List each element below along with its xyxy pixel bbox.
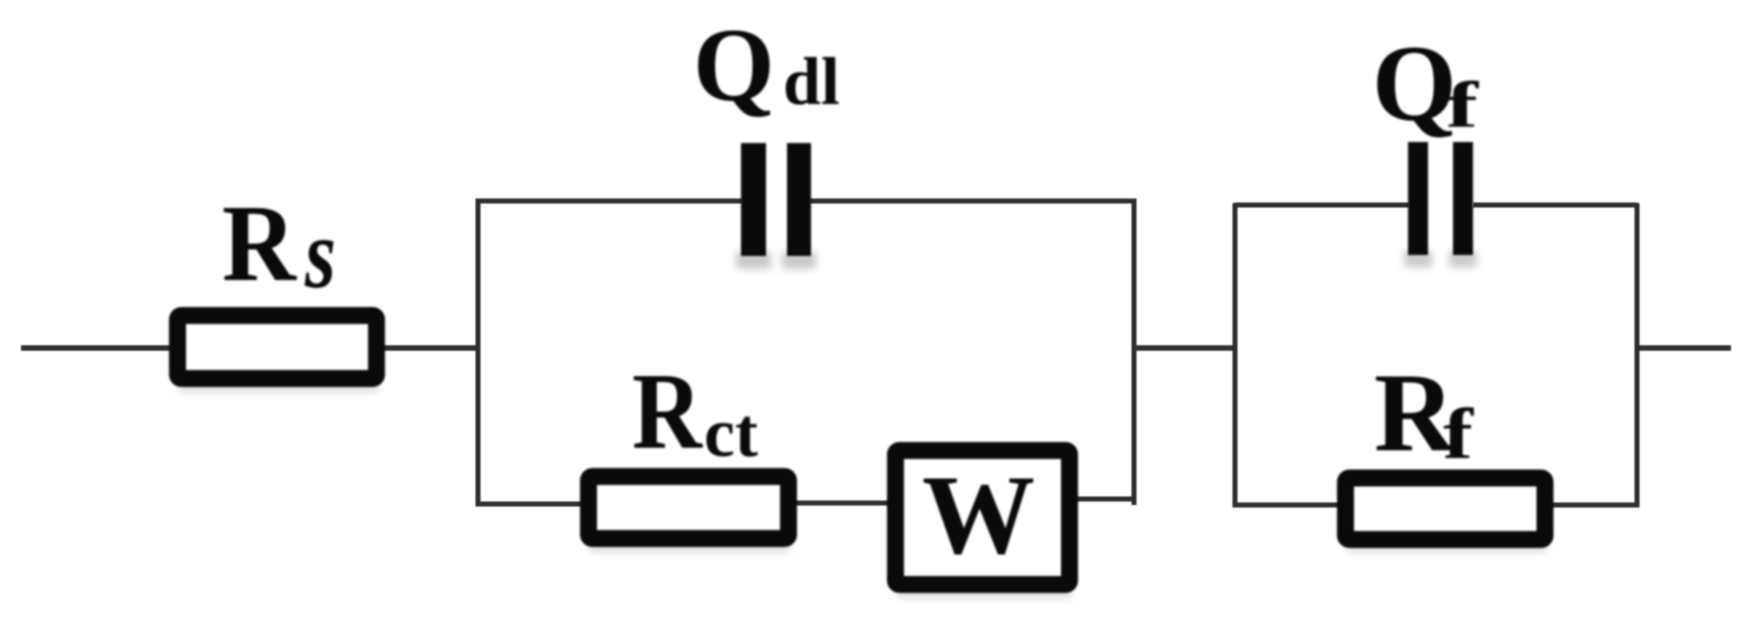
wire block1 top-right segment: [810, 199, 1134, 204]
capacitor Qdl right plate: [787, 143, 811, 256]
capacitor Qf plate shadows: [1404, 251, 1432, 267]
svg-text:R: R: [222, 182, 297, 304]
wire block2 top-left segment: [1235, 203, 1409, 208]
capacitor Qdl left plate: [741, 143, 766, 256]
wire Rs to block1: [382, 345, 480, 351]
wire left lead: [21, 345, 172, 351]
node block2 left vertical: [1233, 203, 1238, 508]
svg-text:f: f: [1446, 69, 1479, 142]
svg-text:s: s: [304, 198, 336, 309]
resistor Rs shadow: [178, 385, 378, 392]
capacitor Qf left plate: [1408, 142, 1428, 255]
svg-text:W: W: [922, 453, 1035, 578]
svg-text:R: R: [632, 351, 703, 472]
warburg W shadow: [897, 591, 1072, 598]
node block1 right vertical: [1132, 199, 1137, 506]
wire block2 bottom-left segment: [1235, 503, 1342, 508]
svg-text:Q: Q: [1372, 23, 1457, 144]
wire W to block1 right vertical: [1074, 497, 1134, 502]
resistor Rct body: [589, 477, 789, 539]
resistor Rct shadow: [590, 545, 790, 552]
wire block2 bottom-right segment: [1550, 503, 1637, 508]
svg-text:ct: ct: [704, 395, 758, 472]
resistor Rs body: [178, 316, 377, 379]
capacitor Qf right plate: [1453, 142, 1473, 255]
svg-text:f: f: [1443, 394, 1474, 474]
warburg element W body: [896, 451, 1070, 585]
node block2 right vertical: [1635, 203, 1640, 508]
wire block1 bottom-left segment: [478, 502, 585, 507]
wire block1 top-left segment: [478, 199, 742, 204]
svg-text:Q: Q: [693, 6, 775, 123]
wire block2 top-right segment: [1473, 203, 1637, 208]
capacitor Qdl plate shadows: [736, 252, 771, 269]
wire Rct to W: [793, 501, 892, 506]
resistor Rf body: [1346, 478, 1546, 540]
node block1 left vertical: [476, 199, 481, 507]
wire block1 to block2: [1132, 345, 1237, 351]
svg-text:dl: dl: [783, 43, 840, 119]
resistor Rf shadow: [1347, 545, 1547, 552]
wire block2 to right edge: [1635, 345, 1731, 351]
